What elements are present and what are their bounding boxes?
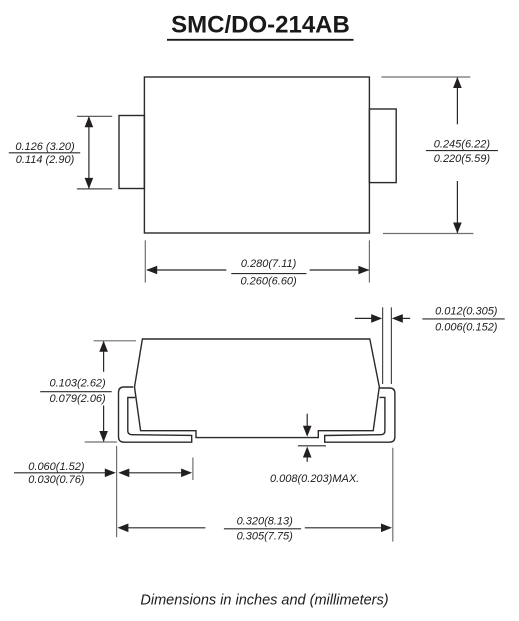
right dim lower arrowhead: [453, 223, 462, 234]
title underline: [167, 39, 354, 41]
bottom dim fraction line: [231, 273, 306, 275]
svg-text:0.103(2.62): 0.103(2.62): [49, 378, 106, 390]
right dim extension line bottom: [383, 233, 473, 235]
bottom dim extension line left: [144, 240, 146, 282]
lead thickness right arrow line: [396, 317, 410, 319]
foot dim double arrowhead right: [181, 469, 192, 478]
side view left lead: [119, 387, 192, 442]
overall width fraction line: [224, 528, 301, 530]
left dim arrowhead down: [85, 178, 94, 189]
foot dim leader arrowhead: [105, 469, 116, 478]
lead thickness extension line left: [382, 307, 384, 384]
top view right terminal tab: [369, 109, 396, 183]
bottom dim right arrow line: [310, 269, 369, 271]
side height lower arrowhead: [99, 431, 108, 442]
left dim fraction line: [9, 152, 80, 154]
side height upper arrow line: [103, 342, 105, 372]
lead thickness fraction line: [422, 318, 504, 320]
left dim arrow line: [88, 117, 90, 188]
svg-text:Dimensions in inches and (mill: Dimensions in inches and (millimeters): [140, 593, 388, 609]
svg-text:0.008(0.203)MAX.: 0.008(0.203)MAX.: [270, 473, 359, 485]
side height fraction line: [40, 391, 112, 393]
svg-text:0.114 (2.90): 0.114 (2.90): [16, 154, 75, 166]
foot dim double arrowhead left: [118, 469, 129, 478]
overall width right arrow line: [305, 527, 383, 529]
overall width extension line right: [392, 448, 394, 542]
standoff upper arrowhead: [303, 426, 312, 437]
foot dim leader line: [14, 472, 107, 474]
svg-text:0.012(0.305): 0.012(0.305): [435, 306, 498, 318]
side view body outline: [135, 339, 380, 438]
standoff lower arrow line: [306, 455, 308, 462]
svg-text:0.030(0.76): 0.030(0.76): [28, 474, 85, 486]
side height upper arrowhead: [99, 341, 108, 352]
svg-text:0.220(5.59): 0.220(5.59): [434, 153, 491, 165]
overall width left arrowhead: [117, 524, 128, 533]
svg-text:0.320(8.13): 0.320(8.13): [237, 516, 294, 528]
foot dim short extension line: [192, 458, 194, 481]
foot dim double arrow line: [126, 472, 186, 474]
side view right lead: [325, 388, 395, 442]
svg-text:0.079(2.06): 0.079(2.06): [49, 393, 106, 405]
right dim upper arrowhead: [453, 77, 462, 88]
side height extension line bottom: [85, 441, 117, 443]
svg-text:0.305(7.75): 0.305(7.75): [237, 530, 294, 542]
right dim upper arrow line: [456, 78, 458, 125]
side height extension line top: [94, 340, 136, 342]
standoff lower arrowhead: [303, 447, 312, 458]
right dim lower arrow line: [456, 181, 458, 233]
right dim fraction line: [426, 150, 498, 152]
svg-text:0.260(6.60): 0.260(6.60): [240, 276, 297, 288]
bottom dim right arrowhead: [358, 266, 369, 275]
svg-text:0.280(7.11): 0.280(7.11): [241, 258, 297, 270]
left dim arrowhead up: [85, 116, 94, 127]
side height lower arrow line: [103, 406, 105, 442]
bottom dim extension line right: [368, 240, 370, 282]
foot dim long extension line: [116, 446, 118, 537]
svg-text:0.006(0.152): 0.006(0.152): [435, 321, 498, 333]
right dim extension line top: [381, 76, 470, 78]
lead thickness extension line right: [390, 307, 392, 384]
overall width left arrow line: [126, 527, 205, 529]
left dim extension line bottom: [77, 188, 112, 190]
top view body rectangle: [144, 77, 369, 233]
svg-text:0.126 (3.20): 0.126 (3.20): [15, 141, 75, 153]
bottom dim left arrow line: [147, 269, 226, 271]
bottom dim left arrowhead: [146, 266, 157, 275]
svg-text:SMC/DO-214AB: SMC/DO-214AB: [171, 12, 350, 39]
overall width right arrowhead: [381, 524, 392, 533]
standoff seating bar: [298, 445, 326, 447]
left dim extension line top: [77, 115, 112, 117]
lead thickness left arrowhead: [371, 314, 382, 323]
svg-text:0.245(6.22): 0.245(6.22): [434, 138, 491, 150]
lead thickness left arrow line: [355, 317, 378, 319]
lead thickness right arrowhead: [392, 314, 403, 323]
standoff upper arrow line: [306, 414, 308, 428]
svg-text:0.060(1.52): 0.060(1.52): [28, 461, 85, 473]
top view left terminal tab: [119, 116, 144, 189]
